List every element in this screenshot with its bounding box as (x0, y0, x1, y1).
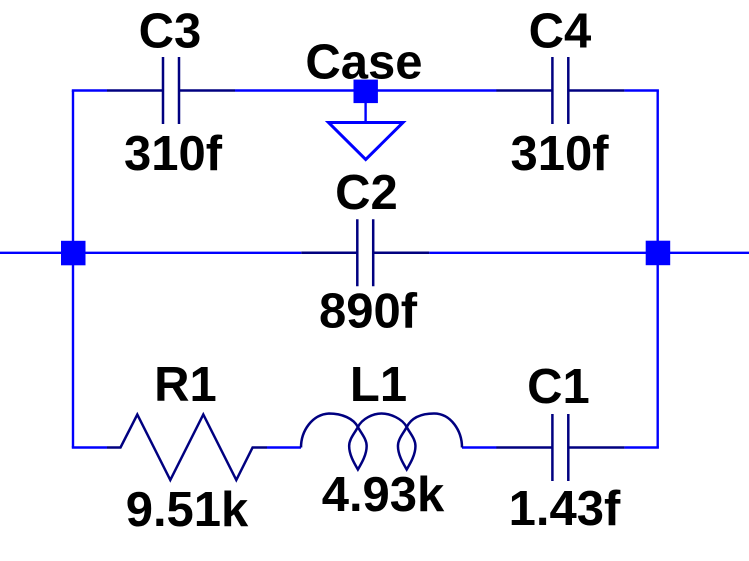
svg-text:L1: L1 (350, 358, 407, 412)
node left (61, 241, 86, 265)
svg-text:890f: 890f (319, 285, 418, 339)
capacitor C4 (496, 57, 624, 124)
svg-text:9.51k: 9.51k (126, 483, 249, 537)
svg-text:310f: 310f (124, 127, 223, 181)
wire R1 to L1 (267, 446, 301, 448)
node Case (354, 80, 378, 104)
wire middle rail left (0, 252, 301, 254)
wire top rail right (624, 89, 659, 91)
wire top rail left (72, 89, 107, 91)
capacitor C1 (496, 414, 624, 481)
svg-text:C3: C3 (139, 5, 202, 59)
svg-text:R1: R1 (154, 358, 217, 412)
wire top rail center (235, 89, 497, 91)
svg-text:C4: C4 (529, 5, 592, 59)
ground Case (329, 123, 404, 160)
wire C1 to right (624, 446, 659, 448)
wire middle rail right (429, 252, 749, 254)
resistor R1 (107, 415, 267, 481)
svg-text:1.43f: 1.43f (509, 482, 621, 536)
svg-text:310f: 310f (510, 127, 609, 181)
wire case stub (364, 103, 366, 123)
wire right vertical (657, 91, 659, 448)
svg-text:Case: Case (305, 36, 422, 90)
node right (646, 241, 671, 266)
capacitor C2 (301, 219, 429, 286)
svg-text:C1: C1 (527, 360, 590, 414)
wire L1 to C1 (462, 446, 497, 448)
svg-text:4.93k: 4.93k (322, 468, 445, 522)
wire left vertical (72, 91, 74, 448)
capacitor C3 (107, 57, 235, 124)
wire bottom rail left (72, 446, 107, 448)
inductor L1 (301, 414, 462, 470)
svg-text:C2: C2 (335, 166, 398, 220)
